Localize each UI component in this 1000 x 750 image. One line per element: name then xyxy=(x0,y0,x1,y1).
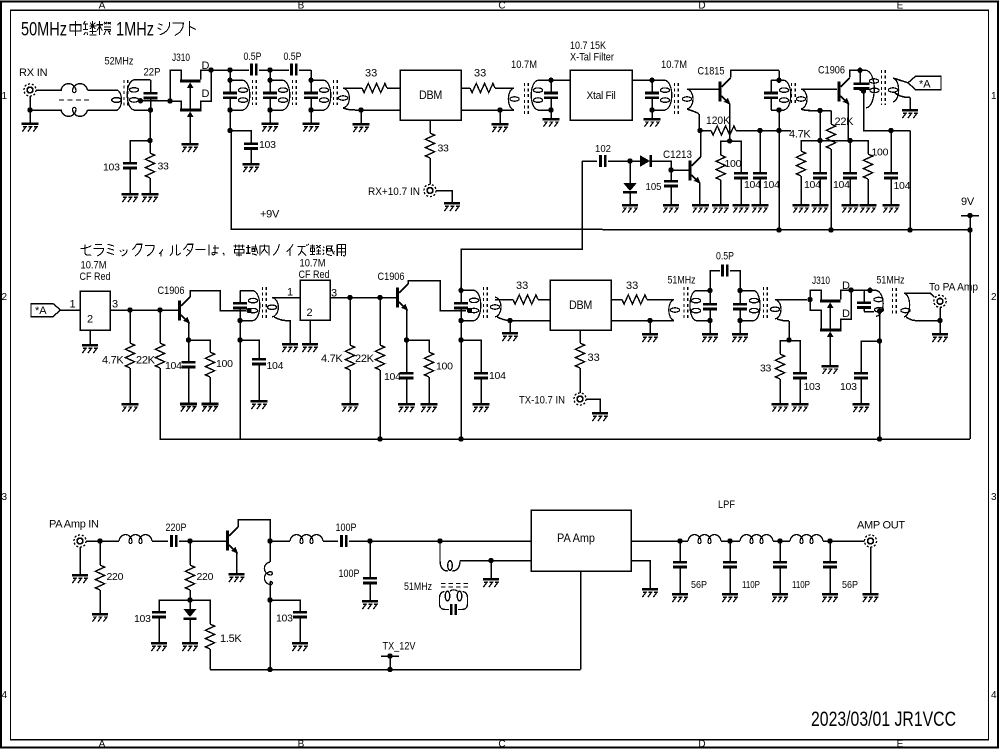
row labels right 1-4 xyxy=(991,91,997,701)
ground Q8 emitter xyxy=(229,573,245,582)
wire flag to CF1 xyxy=(61,309,81,311)
wire divider to emitter node xyxy=(820,140,850,142)
ground T8 secondary xyxy=(502,321,518,342)
note text ceramic filter reduces in-band noise xyxy=(80,244,345,257)
wire 9V bus row1 xyxy=(231,229,970,230)
connector TX-10.7 IN xyxy=(574,393,586,405)
ground 103 input xyxy=(122,169,139,202)
inductor input filter top xyxy=(61,84,88,93)
connector To PA Amp xyxy=(934,295,946,307)
node Q6 emitter junction xyxy=(404,337,409,342)
resonator tank 9 xyxy=(733,288,760,323)
transformer T4 secondary xyxy=(682,89,699,131)
pin 1 CF2 xyxy=(287,287,293,299)
resistor R5 22K xyxy=(826,124,835,149)
node T1 RC junction xyxy=(147,138,152,143)
wire 22K to bus2 xyxy=(160,368,380,439)
svg-text:D: D xyxy=(698,739,705,750)
label 10.7M CF1 xyxy=(81,260,107,272)
transformer T12 primary xyxy=(440,541,460,571)
label 105 xyxy=(646,181,662,193)
node Q3 emitter junction xyxy=(847,138,852,143)
resonator tank 6 xyxy=(233,287,266,323)
wire T8 sec bottom xyxy=(497,317,550,321)
wire tank10 to bus2 xyxy=(879,341,881,439)
transformer T10 secondary xyxy=(770,300,781,320)
label 1.5K xyxy=(220,633,242,645)
node 4.7K r2 first xyxy=(127,307,132,312)
inductor choke r3 mid xyxy=(290,535,323,544)
label LPF 56P 4 xyxy=(842,579,858,591)
svg-text:J310: J310 xyxy=(172,52,190,64)
capacitor C 104 r2a xyxy=(182,340,196,368)
wire Q3 emitter xyxy=(847,104,849,141)
wire drain to tank10 xyxy=(851,289,864,291)
label 100 row1 right xyxy=(872,147,889,159)
label 103 r3b xyxy=(134,613,151,625)
wire LPF 2-3 xyxy=(773,540,790,542)
ground LPF 4 xyxy=(822,593,838,602)
resistor R2 33 mixer out xyxy=(470,83,495,92)
transformer T10 core xyxy=(764,287,768,320)
wire R21 down xyxy=(189,590,191,600)
ground CF1 pin2 xyxy=(82,330,98,353)
svg-text:0.5P: 0.5P xyxy=(244,51,262,63)
ground R15 xyxy=(421,377,438,412)
connector PA Amp IN xyxy=(74,535,86,547)
svg-text:1.5K: 1.5K xyxy=(220,633,242,645)
transistor Q3 C1906 xyxy=(838,78,850,105)
footer date and callsign xyxy=(811,708,956,731)
wire 22K to 9V bus xyxy=(830,149,832,230)
node diode junction xyxy=(627,158,632,163)
label 100P shunt xyxy=(339,568,360,580)
inductor choke collector xyxy=(264,541,272,600)
label C1906 r2 second xyxy=(378,271,405,283)
node T8 gnd junction xyxy=(507,318,512,323)
node LPF 2 xyxy=(727,538,732,543)
label C1815 xyxy=(698,66,725,78)
wire 104 second feed xyxy=(759,131,761,173)
svg-text:10.7M: 10.7M xyxy=(511,59,537,71)
wire bias to 120K xyxy=(700,130,711,132)
inductor L1 LPF xyxy=(688,535,721,544)
ground T7 secondary xyxy=(282,343,298,352)
svg-text:104: 104 xyxy=(267,360,284,372)
svg-text:104: 104 xyxy=(489,370,506,382)
label 220 shunt1 xyxy=(107,571,124,583)
label 0.5P first xyxy=(244,51,262,63)
transformer T4 core xyxy=(675,83,679,114)
wire emitter branch right xyxy=(730,141,741,172)
node tank10 low junction xyxy=(877,338,882,343)
label 100 r2a xyxy=(216,358,233,370)
ground 104 second xyxy=(752,179,769,212)
wire Q8 collector xyxy=(238,520,270,541)
label LPF xyxy=(718,499,735,511)
svg-text:9V: 9V xyxy=(961,196,975,208)
svg-text:E: E xyxy=(897,739,904,750)
svg-text:220: 220 xyxy=(107,571,124,583)
node T12 gnd xyxy=(488,558,493,563)
label C1906 r2 first xyxy=(158,285,185,297)
ground 33 input xyxy=(142,178,159,202)
ground 103 r2 right xyxy=(853,379,870,412)
svg-text:33: 33 xyxy=(474,68,486,80)
svg-text:*A: *A xyxy=(35,305,47,317)
capacitor 0.5P second xyxy=(270,64,311,76)
svg-text:56P: 56P xyxy=(842,579,858,591)
wire filter to T1 bottom xyxy=(88,109,118,111)
ground tank8 xyxy=(702,321,718,342)
svg-text:4.7K: 4.7K xyxy=(789,129,811,141)
label 103 input xyxy=(103,162,120,174)
svg-text:AMP OUT: AMP OUT xyxy=(857,520,905,532)
ground 4.7K row1 xyxy=(793,176,810,213)
wire T1 cap branch bottom xyxy=(134,99,151,110)
svg-text:C1906: C1906 xyxy=(378,271,405,283)
capacitor C 104 r2c xyxy=(400,340,414,379)
label 10.7 15K xyxy=(570,40,607,52)
capacitor C 104 third xyxy=(813,141,827,180)
label To PA Amp xyxy=(929,282,978,294)
svg-text:B: B xyxy=(298,1,305,12)
ground 104 r2c xyxy=(398,379,415,412)
wire 102 right xyxy=(608,160,630,162)
capacitor C 220P xyxy=(170,535,177,547)
transformer T9 primary xyxy=(669,300,680,321)
wire node to choke xyxy=(100,540,119,542)
resonator tank 8 xyxy=(690,288,717,323)
label 104 fifth xyxy=(894,180,911,192)
mixer U1 DBM box xyxy=(400,70,461,120)
node 22K r2 first xyxy=(157,307,162,312)
node LPF 3 xyxy=(777,538,782,543)
svg-text:3: 3 xyxy=(112,299,118,311)
svg-text:100: 100 xyxy=(436,361,453,373)
node top coupling 1 xyxy=(227,67,232,72)
svg-text:104: 104 xyxy=(894,180,911,192)
label 4.7K r2 second xyxy=(321,353,343,365)
wire Q8 emitter xyxy=(236,553,238,574)
wire T11 sec bottom xyxy=(906,317,940,321)
svg-text:110P: 110P xyxy=(792,579,810,591)
label 9V xyxy=(961,196,975,208)
svg-text:10.7M: 10.7M xyxy=(661,59,687,71)
wire T7 sec bottom xyxy=(274,317,290,343)
node 104 feed xyxy=(757,128,762,133)
label CF Red CF1 xyxy=(80,271,111,283)
svg-text:3: 3 xyxy=(2,492,8,503)
transformer T1 52MHz primary xyxy=(112,90,122,110)
svg-text:C: C xyxy=(498,1,505,12)
node top coupling 2 xyxy=(267,67,272,72)
label 10.7M first xyxy=(511,59,537,71)
svg-text:E: E xyxy=(897,1,904,12)
node resonator4 bottom rail xyxy=(776,128,781,133)
ground T3 xyxy=(543,110,560,127)
svg-text:RX+10.7 IN: RX+10.7 IN xyxy=(368,186,420,198)
wire drain to resonator 1 xyxy=(211,69,230,71)
transistor Q8 r3 xyxy=(226,527,238,554)
transformer T6 secondary xyxy=(888,78,898,102)
svg-text:LPF: LPF xyxy=(718,499,735,511)
label X-Tal Filter xyxy=(570,52,614,64)
svg-text:4.7K: 4.7K xyxy=(321,353,343,365)
ground LPF 3 xyxy=(772,593,788,602)
node bus2 tank7 xyxy=(458,436,463,441)
ground 104 first xyxy=(733,179,750,212)
wire 12V bus row3 xyxy=(210,669,581,671)
wire DBM out xyxy=(461,87,470,89)
node T4 top xyxy=(649,78,654,83)
label 51MHz r2 xyxy=(668,275,696,287)
wire T11 to connector xyxy=(904,293,934,297)
node 100P shunt xyxy=(367,538,372,543)
node bus 22K xyxy=(828,227,833,232)
svg-text:10.7M: 10.7M xyxy=(81,260,107,272)
wire Q2 emitter down xyxy=(729,104,731,142)
label 103 r3a xyxy=(276,613,293,625)
label C1906 row1 xyxy=(818,65,845,77)
node bus2 22K second xyxy=(377,436,382,441)
label 103 r2 xyxy=(804,381,821,393)
wire Q6 collector xyxy=(408,281,466,311)
resistor R22 1.5K xyxy=(190,600,215,670)
label 33 LO xyxy=(438,143,450,155)
wire Q5 collector xyxy=(190,291,246,311)
wire Q4 collector xyxy=(700,131,702,158)
label 104 first xyxy=(744,179,761,191)
wire PA bottom xyxy=(580,571,582,670)
wire DBM LO port xyxy=(429,120,431,133)
wire to 103 input xyxy=(130,141,150,163)
node secondary gnd junction xyxy=(358,107,363,112)
capacitor C 104 r2b xyxy=(240,340,266,365)
wire T3 to xtal filter xyxy=(551,79,570,81)
label 120K xyxy=(706,115,731,127)
node tank7 tap xyxy=(467,308,472,313)
capacitor C 100P series xyxy=(340,535,347,547)
label 52MHz xyxy=(105,56,134,68)
ground T4 xyxy=(644,110,661,127)
node 51MHz trap xyxy=(437,538,442,543)
transformer T12 secondary tank xyxy=(440,590,468,615)
node PA in xyxy=(97,538,102,543)
node bus res4 xyxy=(776,227,781,232)
ground 104 r2a xyxy=(180,368,197,411)
node T4 bottom xyxy=(649,107,654,112)
svg-text:+9V: +9V xyxy=(260,209,280,221)
transformer T5 secondary xyxy=(796,89,810,111)
svg-text:33: 33 xyxy=(365,68,377,80)
svg-text:104: 104 xyxy=(165,360,182,372)
node LPF 1 xyxy=(677,538,682,543)
wire choke to bus3 xyxy=(269,600,271,670)
node T1 tap xyxy=(138,98,143,103)
capacitor tank 10.7M second xyxy=(645,80,659,110)
svg-text:4.7K: 4.7K xyxy=(102,355,124,367)
wire T12 to PA aux xyxy=(460,560,531,562)
node bus2 tank10 xyxy=(877,436,882,441)
label 22K r2 second xyxy=(355,353,375,365)
transistor Q4 C1213 xyxy=(689,157,701,184)
ground T2 secondary xyxy=(353,110,370,132)
svg-text:A: A xyxy=(99,739,106,750)
wire filter to T1 top xyxy=(88,89,118,91)
resistor R1 33 mixer in xyxy=(362,83,387,92)
svg-text:D: D xyxy=(202,60,210,72)
wire T1 tap to J310 xyxy=(141,100,171,102)
label LPF 110P 2 xyxy=(742,579,760,591)
ground 100P shunt xyxy=(362,584,378,609)
wire T5 sec to Q3 base xyxy=(801,88,837,90)
wire Q6 emitter to 100 xyxy=(407,340,430,352)
svg-text:22K: 22K xyxy=(835,116,855,128)
wire T10 to J310 xyxy=(775,299,807,301)
capacitor C 102 xyxy=(599,155,606,167)
label 104 fourth xyxy=(833,179,850,191)
svg-text:100: 100 xyxy=(216,358,233,370)
wire T2 secondary bottom xyxy=(343,108,400,110)
resistor R8 33 input xyxy=(145,141,154,179)
label 100 emitter xyxy=(725,158,742,170)
wire conn to node xyxy=(86,540,100,542)
wire LPF 3-out xyxy=(823,540,864,542)
svg-text:2: 2 xyxy=(87,314,93,326)
capacitor C LPF 56P 4 xyxy=(823,541,837,593)
ground R12 xyxy=(202,377,219,412)
wire res1 to 103 xyxy=(230,131,251,143)
svg-text:33: 33 xyxy=(158,161,170,173)
node 22K r2 second xyxy=(377,295,382,300)
capacitor 22P xyxy=(144,92,158,99)
label 22K row1 xyxy=(835,116,855,128)
resistor R16 33 DBM2 in xyxy=(513,295,538,304)
node bus tank5 xyxy=(907,227,912,232)
wire Q4 emitter xyxy=(699,183,701,204)
label RX+10.7 IN xyxy=(368,186,420,198)
ground 104 third xyxy=(812,179,829,212)
wire Q5 emitter xyxy=(188,323,190,341)
ground DBM2 right xyxy=(642,321,658,343)
svg-text:A: A xyxy=(99,1,106,12)
node 33 103 junction r2 xyxy=(786,337,791,342)
ground 105 xyxy=(663,187,679,212)
ground 104 fifth xyxy=(883,179,900,212)
label 104 r2b xyxy=(267,360,284,372)
wire Q2 collector up xyxy=(731,70,780,77)
capacitor C 103 r2 xyxy=(789,341,807,380)
ground R20 xyxy=(92,590,108,622)
label 33 IF xyxy=(588,352,600,364)
capacitor C LPF 56P 1 xyxy=(673,541,687,593)
ground CF2 pin2 xyxy=(302,320,318,352)
svg-text:120K: 120K xyxy=(706,115,731,127)
label 51MHz r3 xyxy=(404,581,432,593)
svg-text:220: 220 xyxy=(197,571,214,583)
label 100 r2b xyxy=(436,361,453,373)
node Q5 emitter junction xyxy=(186,337,191,342)
label 104 third xyxy=(804,179,821,191)
label 33 DBM2 in xyxy=(516,280,528,292)
wire 100P to PA xyxy=(349,540,531,542)
ground LPF 1 xyxy=(672,593,688,602)
ground 104 r2d xyxy=(473,379,490,412)
wire DBM2 IF port xyxy=(579,330,581,343)
flag A input xyxy=(31,304,61,317)
label AMP OUT xyxy=(857,520,905,532)
mixer U5 DBM box second xyxy=(550,280,611,330)
transformer T3 tank coil xyxy=(531,80,551,110)
ground Q4 emitter xyxy=(692,204,709,213)
svg-text:D: D xyxy=(202,88,210,100)
label 4.7K row1 xyxy=(789,129,811,141)
wire tank6 down xyxy=(239,321,241,340)
label LPF 56P 1 xyxy=(691,579,707,591)
node tank7 low junction xyxy=(458,337,463,342)
diode D2 series xyxy=(630,155,652,167)
capacitor C LPF 110P 3 xyxy=(773,541,787,593)
amplifier U6 PA Amp box xyxy=(531,510,631,571)
label 51MHz r2 out xyxy=(877,275,905,287)
node bias 120K left xyxy=(697,128,702,133)
svg-text:33: 33 xyxy=(516,280,528,292)
filter U3 CF1 box xyxy=(80,291,110,330)
capacitor C 104 second xyxy=(753,172,767,179)
svg-text:103: 103 xyxy=(134,613,151,625)
svg-text:DBM: DBM xyxy=(419,90,442,102)
wire Q2 collector corner xyxy=(778,70,780,80)
wire divider vertical xyxy=(819,111,821,141)
label J310 second xyxy=(812,275,830,287)
svg-text:100: 100 xyxy=(872,147,889,159)
wire R1 to DBM xyxy=(387,87,400,89)
label 102 xyxy=(595,143,611,155)
label 33 input xyxy=(158,161,170,173)
transformer T2 secondary coil xyxy=(338,88,349,108)
label 33 mixer in xyxy=(365,68,377,80)
svg-text:105: 105 xyxy=(646,181,662,193)
wire choke to 220P xyxy=(152,540,168,542)
node C1213 base xyxy=(668,167,673,172)
svg-text:TX_12V: TX_12V xyxy=(383,641,417,653)
wire D2 to base xyxy=(652,161,671,170)
label 103 r2 right xyxy=(840,381,857,393)
svg-text:C1213: C1213 xyxy=(663,149,692,161)
node T3 bottom xyxy=(548,107,553,112)
wire LPF 1-2 xyxy=(721,540,740,542)
resonator tank 5 xyxy=(854,70,880,108)
label 33 r2 xyxy=(760,363,772,375)
resistor R11 22K xyxy=(155,310,164,368)
svg-text:33: 33 xyxy=(626,280,638,292)
svg-text:4: 4 xyxy=(991,690,997,701)
ground 103 row1 right xyxy=(243,150,260,172)
ground RX+10.7 xyxy=(436,191,460,212)
svg-text:PA Amp IN: PA Amp IN xyxy=(49,519,99,531)
wire to 9V bus right xyxy=(909,131,911,231)
terminal TX_12V tick xyxy=(381,653,399,669)
svg-text:1: 1 xyxy=(2,91,8,102)
svg-text:DBM: DBM xyxy=(569,300,592,312)
wire Q6 emitter xyxy=(406,310,408,341)
transformer T1 core xyxy=(124,80,128,107)
wire T5 sec bottom xyxy=(808,110,831,112)
svg-text:0.5P: 0.5P xyxy=(716,251,734,263)
node choke bottom xyxy=(267,597,272,602)
svg-text:X-Tal Filter: X-Tal Filter xyxy=(570,52,614,64)
